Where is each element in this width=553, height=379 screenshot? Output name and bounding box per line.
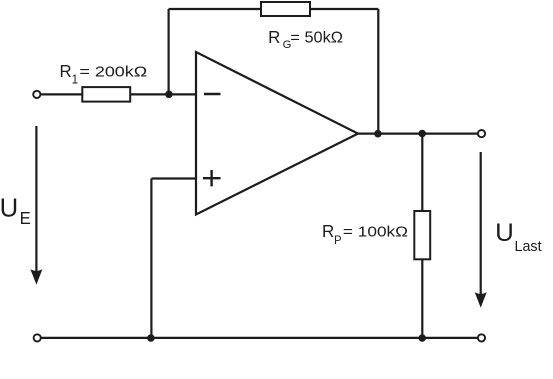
- resistor R1: [82, 87, 130, 102]
- node: load tap on output: [418, 130, 426, 138]
- wire: top feedback horizontal: [169, 8, 379, 10]
- resistor RP: [414, 211, 430, 259]
- svg-text:= 50kΩ: = 50kΩ: [290, 30, 343, 47]
- svg-text:U: U: [495, 219, 514, 247]
- svg-text:= 100kΩ: = 100kΩ: [343, 224, 408, 241]
- wire: input to op-amp inverting: [41, 93, 196, 95]
- wire: bottom rail: [41, 337, 478, 339]
- wire: non-inverting input vertical to ground rail: [150, 179, 152, 339]
- bottom right terminal: [478, 334, 485, 341]
- op-amp plus symbol: [203, 177, 221, 179]
- wire: left feedback vertical: [168, 9, 170, 95]
- svg-text:1: 1: [72, 72, 78, 87]
- wire: non-inverting input horizontal: [151, 177, 196, 179]
- op-amp minus symbol: [204, 93, 221, 95]
- svg-text:R: R: [60, 61, 72, 81]
- op-amp U1: [196, 52, 358, 215]
- node: bottom rail junction left: [147, 334, 155, 342]
- svg-text:P: P: [334, 233, 341, 247]
- node: feedback tap on output: [374, 130, 382, 138]
- wire: load branch vertical: [421, 134, 423, 338]
- arrow ULast output voltage: [480, 152, 482, 295]
- wire: output horizontal: [358, 133, 478, 135]
- resistor RG: [261, 2, 310, 16]
- arrow UE input voltage: [35, 126, 37, 272]
- node: bottom rail junction right: [418, 334, 426, 342]
- svg-text:R: R: [268, 27, 280, 47]
- input terminal (left top): [33, 91, 40, 98]
- svg-text:U: U: [0, 192, 18, 222]
- output terminal (right top): [478, 130, 485, 137]
- bottom left terminal: [34, 334, 41, 341]
- wire: right feedback vertical: [377, 9, 379, 134]
- svg-text:R: R: [322, 221, 334, 241]
- svg-text:Last: Last: [515, 238, 543, 255]
- svg-text:= 200kΩ: = 200kΩ: [79, 64, 147, 81]
- node: inverting input junction: [165, 91, 173, 99]
- svg-text:E: E: [20, 208, 31, 228]
